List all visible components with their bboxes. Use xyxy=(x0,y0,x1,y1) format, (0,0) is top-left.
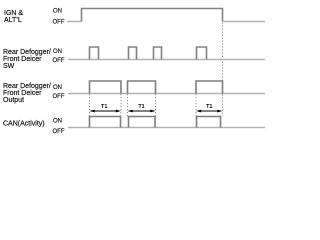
T1 arrow 2 xyxy=(128,110,156,113)
row 4 CAN pulse 3 xyxy=(197,117,221,128)
svg-text:ON: ON xyxy=(53,8,62,14)
global dashed line at IGN off xyxy=(222,23,224,117)
svg-text:CAN(Activity): CAN(Activity) xyxy=(3,121,45,128)
svg-text:ALT’L: ALT’L xyxy=(4,17,22,24)
row 2 switch pulse 1 xyxy=(90,47,99,60)
row 3 output pulse 1 xyxy=(90,81,122,94)
svg-text:Rear Defogger/: Rear Defogger/ xyxy=(3,49,51,56)
dashed drop line at output rise 2 xyxy=(127,94,129,116)
svg-text:ON: ON xyxy=(53,85,62,91)
row 2 switch pulse 2 xyxy=(129,47,137,60)
row 3 output pulse 2 xyxy=(128,81,156,94)
dashed drop line at output rise 3 xyxy=(195,94,197,116)
svg-text:ON: ON xyxy=(53,49,62,55)
svg-text:Rear Defogger/: Rear Defogger/ xyxy=(3,83,51,90)
row 1 waveform ON pulse xyxy=(82,9,223,22)
row 4 CAN pulse 1 xyxy=(90,117,121,128)
row 4 CAN pulse 2 xyxy=(129,117,156,128)
row 4 OFF baseline xyxy=(68,127,265,129)
T1 arrow 3 xyxy=(196,110,223,113)
svg-text:OFF: OFF xyxy=(53,94,65,100)
row 2 switch pulse 3 xyxy=(154,47,162,60)
svg-text:OFF: OFF xyxy=(53,129,65,135)
svg-text:OFF: OFF xyxy=(53,20,65,26)
dashed drop line at output fall 2 xyxy=(155,94,157,116)
dashed drop line at output fall 1 xyxy=(120,94,122,116)
row 3 output pulse 3 xyxy=(196,81,223,94)
row 1 waveform OFF baseline right xyxy=(223,21,266,23)
row 3 OFF baseline xyxy=(68,93,265,95)
svg-text:Front Deicer: Front Deicer xyxy=(3,56,42,63)
svg-text:T1: T1 xyxy=(101,104,107,110)
svg-text:Output: Output xyxy=(3,97,24,104)
svg-text:IGN &: IGN & xyxy=(4,10,23,17)
row 1 waveform OFF baseline left xyxy=(67,21,82,23)
dashed drop line at output rise 1 xyxy=(89,94,91,116)
svg-text:T1: T1 xyxy=(206,104,212,110)
svg-text:ON: ON xyxy=(53,118,62,124)
row 2 switch pulse 4 xyxy=(197,47,207,60)
row 2 OFF baseline xyxy=(68,59,265,61)
svg-text:SW: SW xyxy=(3,63,15,70)
svg-text:OFF: OFF xyxy=(53,58,65,64)
svg-text:T1: T1 xyxy=(138,104,144,110)
T1 arrow 1 xyxy=(90,110,122,113)
svg-text:Front Deicer: Front Deicer xyxy=(3,90,42,97)
